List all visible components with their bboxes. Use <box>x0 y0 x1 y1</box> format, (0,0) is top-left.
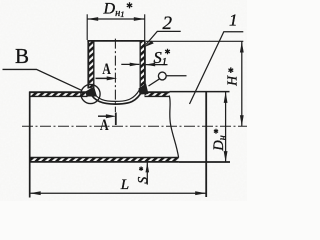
label B leader <box>3 69 82 90</box>
wire: saddle curve (branch/pipe intersection) <box>90 91 142 104</box>
wire: branch pipe top edge <box>87 40 145 42</box>
main pipe top wall right section (hatched) <box>145 92 170 96</box>
label 1 leader <box>190 32 244 104</box>
section A lower arrow <box>98 115 111 117</box>
wire: main pipe centerline <box>22 125 247 127</box>
wire: Dn1 extension right <box>144 14 146 40</box>
dimension Dn line <box>225 92 227 163</box>
dimension Dn1 line <box>87 18 145 20</box>
weld left (fillet) <box>86 87 98 97</box>
section A upper arrow <box>96 77 113 79</box>
wire: main pipe left end line + L extension <box>29 92 31 198</box>
wire: Dn1 extension left <box>86 14 88 40</box>
wire: main pipe top outline right of break + extension to Dn dim <box>170 91 230 93</box>
main pipe bottom wall (hatched) <box>29 158 178 162</box>
paper grain overlay <box>0 0 247 201</box>
wire: branch pipe centerline <box>114 39 116 112</box>
branch pipe right wall (hatched) <box>140 41 145 86</box>
dimension L line <box>30 192 207 194</box>
dimension S (bottom wall) <box>146 162 148 184</box>
dimension S1 <box>121 63 139 65</box>
detail circle B <box>81 84 100 103</box>
wire: break line between section and outside view <box>169 96 178 158</box>
wire: main pipe bottom outline right of break + extension <box>179 161 230 163</box>
weld symbol circle + leader <box>158 72 166 80</box>
main pipe top wall left section (hatched) <box>29 92 87 96</box>
weld right (fillet) <box>139 84 149 95</box>
wire: main pipe right end line + L extension <box>205 91 207 197</box>
dimension H line <box>146 40 243 42</box>
branch pipe left wall (hatched) <box>88 41 94 88</box>
label 2 leader <box>146 31 181 44</box>
